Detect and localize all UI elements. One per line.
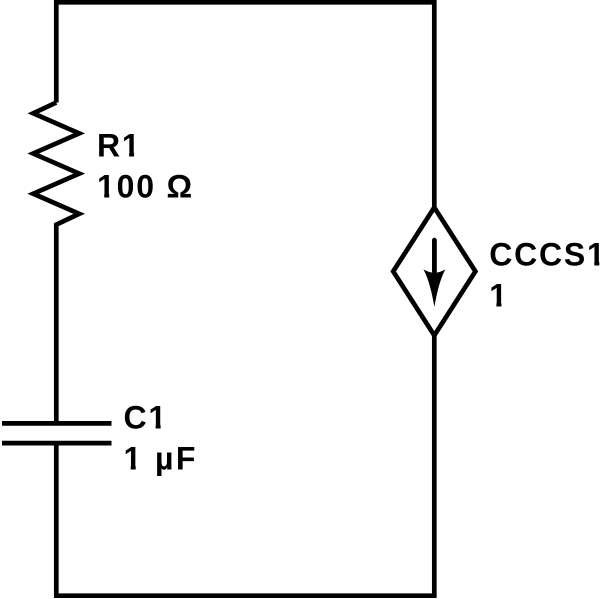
svg-text:C1: C1 xyxy=(124,399,169,435)
svg-text:1: 1 xyxy=(489,277,509,313)
svg-text:R1: R1 xyxy=(97,127,142,163)
svg-text:100 Ω: 100 Ω xyxy=(97,169,194,205)
svg-text:1 µF: 1 µF xyxy=(124,440,198,476)
svg-text:CCCS1: CCCS1 xyxy=(489,236,600,272)
